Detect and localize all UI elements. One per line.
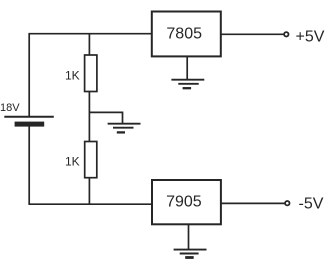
- wire between R1 and R2: [88, 92, 90, 142]
- battery V1 positive plate (long thin): [4, 116, 54, 118]
- svg-text:7905: 7905: [166, 194, 202, 211]
- terminal circle -5V output: [285, 201, 289, 205]
- ground symbol under 7905: [174, 250, 207, 258]
- svg-text:+5V: +5V: [296, 29, 325, 46]
- svg-text:18V: 18V: [0, 102, 20, 114]
- svg-text:-5V: -5V: [299, 196, 324, 213]
- wire top rail from battery + terminal to 7805 input: [29, 34, 152, 117]
- svg-text:1K: 1K: [65, 154, 80, 168]
- wire 7905 output to -5V terminal: [221, 202, 285, 204]
- regulator U1 7805 box: [152, 12, 221, 57]
- battery V1 negative plate (short thick): [15, 122, 45, 127]
- svg-text:1K: 1K: [65, 68, 80, 82]
- regulator U2 7905 box: [152, 180, 221, 224]
- wire 7805 output to +5V terminal: [221, 33, 284, 35]
- resistor R1 1K body: [85, 55, 97, 92]
- wire divider midpoint to center ground: [89, 112, 122, 123]
- ground symbol under 7805: [171, 80, 204, 89]
- wire top rail junction down to R1: [88, 34, 90, 55]
- terminal circle +5V output: [284, 32, 288, 36]
- svg-text:7805: 7805: [166, 26, 202, 43]
- wire bottom rail from battery - terminal to 7905 input: [29, 127, 152, 205]
- resistor R2 1K body: [85, 142, 97, 178]
- ground symbol at divider midpoint: [108, 124, 141, 133]
- wire 7805 ground pin to ground: [186, 56, 188, 79]
- wire R2 to bottom rail junction: [88, 178, 90, 205]
- wire 7905 ground pin to ground: [188, 224, 190, 249]
